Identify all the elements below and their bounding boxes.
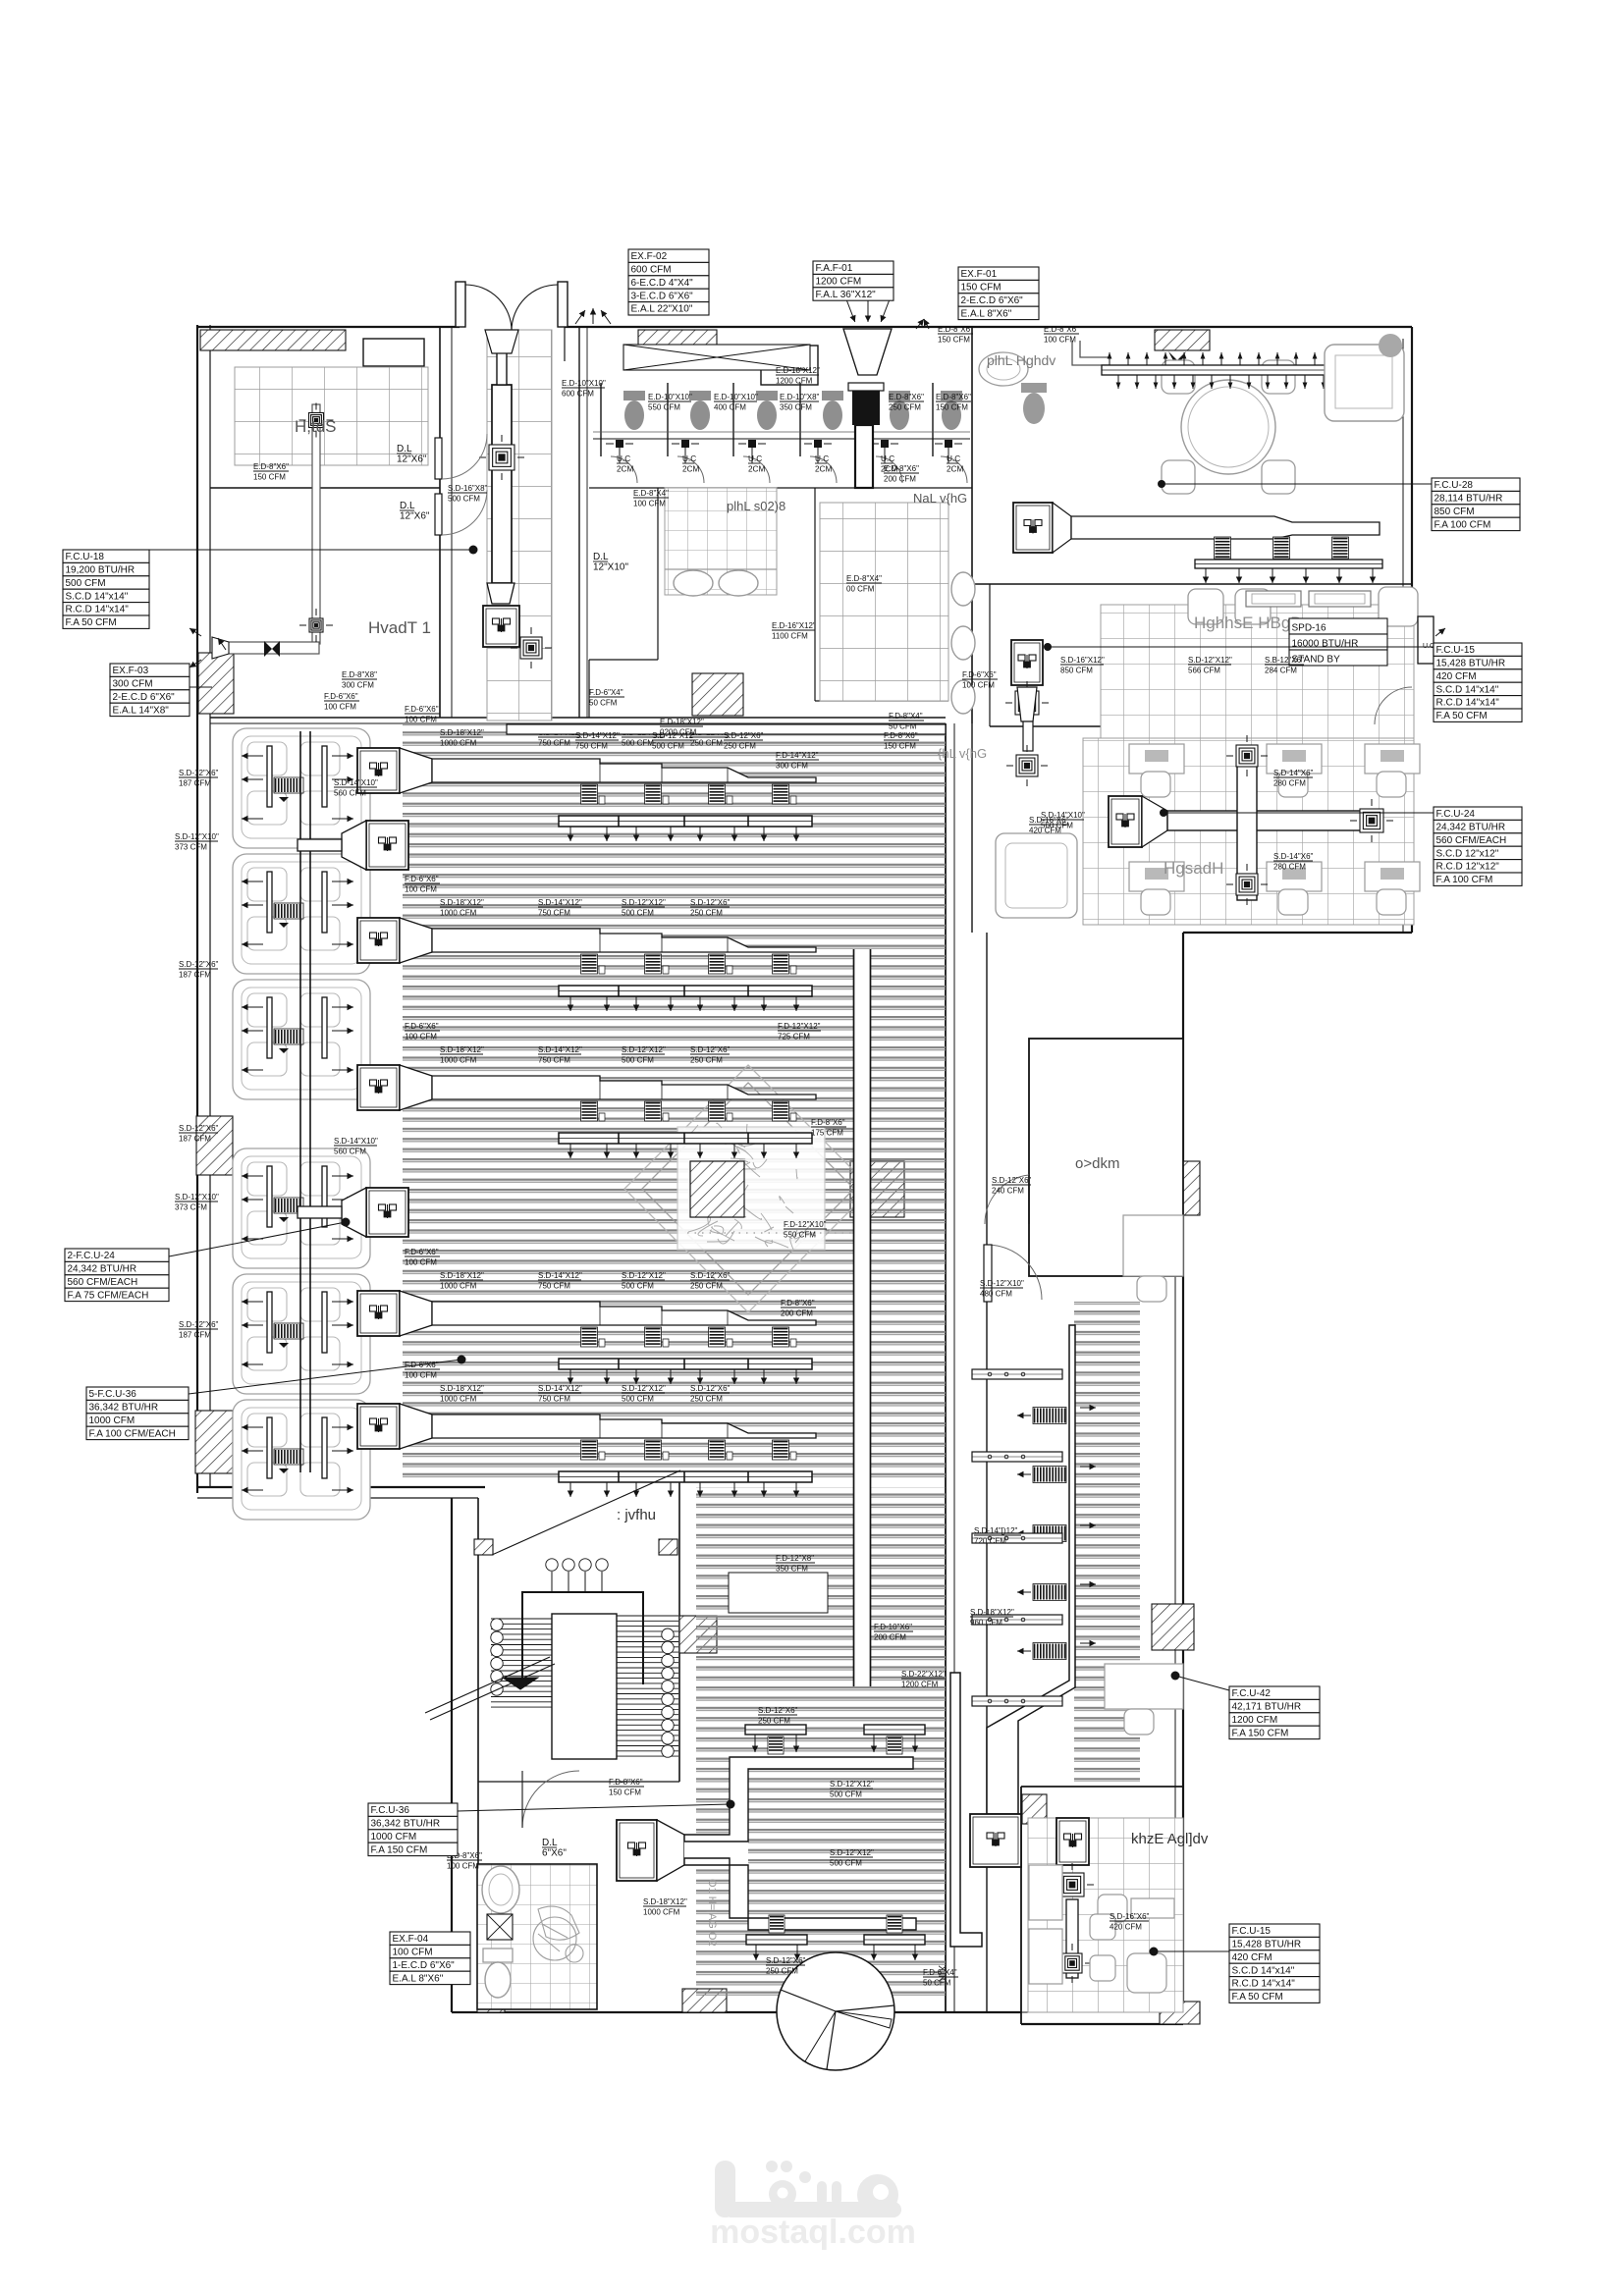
accessible WC symbol <box>533 1906 583 1962</box>
svg-text:2-E.C.D 6"X6": 2-E.C.D 6"X6" <box>113 692 176 703</box>
ablution cluster 4 <box>233 1148 370 1268</box>
valve top right <box>1168 351 1186 368</box>
svg-text:plhL s02)8: plhL s02)8 <box>727 499 785 513</box>
svg-text:850 CFM: 850 CFM <box>1060 667 1093 675</box>
svg-text:36,342 BTU/HR: 36,342 BTU/HR <box>89 1403 159 1414</box>
svg-text:6-E.C.D 4"X4": 6-E.C.D 4"X4" <box>631 278 694 289</box>
svg-text:SPD-16: SPD-16 <box>1292 623 1326 634</box>
2-F.C.U-24 label box <box>65 1249 169 1302</box>
svg-text:S.C.D 14"x14": S.C.D 14"x14" <box>1232 1965 1295 1976</box>
svg-text:2CM: 2CM <box>682 465 699 474</box>
vanity basin <box>979 352 1028 386</box>
svg-text:S.D-22"X12": S.D-22"X12" <box>901 1670 946 1679</box>
decorative diamond medallion <box>624 1065 872 1312</box>
svg-text:200 CFM: 200 CFM <box>874 1633 906 1642</box>
svg-text:2CM: 2CM <box>815 465 832 474</box>
svg-text:S.D-12"X10": S.D-12"X10" <box>980 1279 1024 1288</box>
svg-text:S.C.D 14"x14": S.C.D 14"x14" <box>1436 684 1499 695</box>
svg-text:E.D-8"X4": E.D-8"X4" <box>846 574 882 583</box>
svg-text:S.D-12"X6": S.D-12"X6" <box>690 1384 731 1393</box>
EX.F-03 label box <box>110 664 189 717</box>
svg-text:EX.F-04: EX.F-04 <box>393 1934 429 1945</box>
svg-text:0200 CFM: 0200 CFM <box>660 728 697 737</box>
lower hall lower diffuser 2 <box>864 1915 925 1960</box>
U.C 2CM label 1 <box>617 454 633 474</box>
label S.D-18x12 row 1 <box>440 728 484 748</box>
svg-text:480 CFM: 480 CFM <box>980 1290 1012 1299</box>
label S.D-12x12 row 4 <box>622 1271 666 1291</box>
svg-text:U.C: U.C <box>947 454 960 463</box>
label E.D-10x10 corr <box>562 379 606 399</box>
svg-text:2CM: 2CM <box>748 465 765 474</box>
dining round table <box>1162 360 1295 494</box>
svg-text:15,428 BTU/HR: 15,428 BTU/HR <box>1232 1940 1302 1950</box>
svg-text:373 CFM: 373 CFM <box>175 1203 207 1212</box>
svg-text:S.D-16"X8": S.D-16"X8" <box>448 484 488 493</box>
svg-text:350 CFM: 350 CFM <box>780 403 812 412</box>
svg-text:36,342 BTU/HR: 36,342 BTU/HR <box>371 1819 441 1830</box>
F.C.U-15 mid trunk <box>1005 640 1049 786</box>
svg-text:100 CFM: 100 CFM <box>324 703 356 712</box>
kitchen door arc <box>1375 687 1412 724</box>
svg-text:500 CFM: 500 CFM <box>448 495 480 504</box>
svg-text:mostaql.com: mostaql.com <box>710 2214 916 2251</box>
svg-text:500 CFM: 500 CFM <box>622 909 654 918</box>
svg-text:S.D-14"X6": S.D-14"X6" <box>1273 769 1314 777</box>
svg-text:280 CFM: 280 CFM <box>1273 863 1306 872</box>
H.tdS exhaust duct run <box>212 403 334 660</box>
lower hall upper diffuser 2 <box>864 1725 925 1754</box>
svg-text:750 CFM: 750 CFM <box>538 909 570 918</box>
svg-text:175 CFM: 175 CFM <box>811 1129 843 1138</box>
svg-text:H,tdS: H,tdS <box>295 417 337 436</box>
svg-text:560 CFM/EACH: 560 CFM/EACH <box>68 1277 138 1288</box>
svg-text:F.D-6"X6": F.D-6"X6" <box>405 1248 439 1256</box>
svg-text:1100 CFM: 1100 CFM <box>772 632 808 641</box>
F.C.U-36 label box <box>368 1803 458 1856</box>
svg-text:2-F.C.U-24: 2-F.C.U-24 <box>68 1251 116 1261</box>
svg-text:F.A 100 CFM: F.A 100 CFM <box>1435 519 1491 530</box>
svg-text:F.D-6"X6": F.D-6"X6" <box>405 705 439 714</box>
svg-text:U.C: U.C <box>815 454 829 463</box>
label S.D-14x12 row 3 <box>538 1045 582 1065</box>
svg-text:1200 CFM: 1200 CFM <box>1232 1715 1278 1726</box>
svg-text:750 CFM: 750 CFM <box>538 1282 570 1291</box>
label E.D-8x6 150b <box>936 393 971 412</box>
right wing linear diffuser 4 <box>972 1615 1062 1625</box>
stair diagonal void line <box>492 1470 680 1555</box>
svg-text:E.D-8"X8": E.D-8"X8" <box>342 670 377 679</box>
hall supply duct row 2 <box>357 918 816 1011</box>
svg-text:S.D-14"X12": S.D-14"X12" <box>538 1384 582 1393</box>
label S.D-12x12 500 b <box>830 1848 874 1868</box>
svg-text:100 CFM: 100 CFM <box>405 885 437 894</box>
svg-text:150 CFM: 150 CFM <box>938 336 970 345</box>
hall supply duct row 3 <box>357 1065 816 1158</box>
right wing trunk duct + F.C.U-42 unit <box>970 1325 1075 1867</box>
svg-text:420 CFM: 420 CFM <box>1029 827 1061 835</box>
medallion hatch square L <box>690 1161 744 1217</box>
ablution cluster 5 <box>233 1274 370 1394</box>
svg-text:1000 CFM: 1000 CFM <box>440 1056 477 1065</box>
kitchen sinks <box>1246 591 1301 607</box>
svg-text:420 CFM: 420 CFM <box>1436 671 1477 682</box>
5-F.C.U-36 leader <box>189 1360 461 1394</box>
label S.D-12x12 top <box>652 731 696 751</box>
svg-text:2CM: 2CM <box>947 465 963 474</box>
svg-text:S.D-18"X12": S.D-18"X12" <box>440 728 484 737</box>
svg-text:1000 CFM: 1000 CFM <box>643 1908 680 1917</box>
label S.D-22x12 1200 <box>901 1670 946 1689</box>
F.C.U-42 label box <box>1229 1686 1320 1739</box>
label S.D-14x6 office b <box>1273 852 1314 872</box>
label E.D-8x6 100 top <box>1044 325 1079 345</box>
svg-text:100 CFM: 100 CFM <box>405 716 437 724</box>
svg-text:F.D-8"X6": F.D-8"X6" <box>811 1118 845 1127</box>
svg-text:550 CFM: 550 CFM <box>648 403 680 412</box>
right wing coil diffuser 4 <box>1017 1581 1096 1601</box>
svg-text:F.D-14"X12": F.D-14"X12" <box>776 751 819 760</box>
room H,tdS tile floor <box>235 367 428 465</box>
svg-text:600 CFM: 600 CFM <box>562 390 594 399</box>
svg-text:15,428 BTU/HR: 15,428 BTU/HR <box>1436 659 1506 669</box>
label F.D-6x6 row 4 <box>405 1248 440 1267</box>
svg-text:250 CFM: 250 CFM <box>889 403 921 412</box>
svg-text:S.D-12"X6": S.D-12"X6" <box>690 1271 731 1280</box>
svg-text:100 CFM: 100 CFM <box>633 500 666 508</box>
svg-text:12"X10": 12"X10" <box>593 562 628 573</box>
svg-text:187 CFM: 187 CFM <box>179 971 211 980</box>
label S.D-12x12 566 <box>1188 656 1232 675</box>
ablution cluster 2 <box>233 854 370 974</box>
svg-text:F.D-12"X12": F.D-12"X12" <box>778 1022 821 1031</box>
svg-text:HvadT 1: HvadT 1 <box>368 618 431 637</box>
svg-text:300 CFM: 300 CFM <box>113 679 153 690</box>
label S.D-14x12 row 5 <box>538 1384 582 1404</box>
svg-text:100 CFM: 100 CFM <box>405 1033 437 1041</box>
dining slot diffuser with arrows <box>1102 352 1386 389</box>
label S.D-12x12 row 5 <box>622 1384 666 1404</box>
svg-text:F.D-6"X6": F.D-6"X6" <box>962 670 997 679</box>
U.C 2CM label 5 <box>881 454 897 474</box>
lower hall loop duct + F.C.U-36 <box>617 1757 916 1930</box>
svg-text:F.C.U-24: F.C.U-24 <box>1436 809 1476 820</box>
svg-text:S.D-16"X6": S.D-16"X6" <box>1029 816 1069 825</box>
svg-text:E.D-8"X6": E.D-8"X6" <box>1044 325 1079 334</box>
label F.D-10x6 200 <box>874 1623 913 1642</box>
svg-text:F.D-8"X6": F.D-8"X6" <box>884 731 918 740</box>
o>dkm door <box>985 1175 1029 1224</box>
label E.D-18x12 top <box>776 366 820 386</box>
svg-text:F.C.U-15: F.C.U-15 <box>1232 1926 1272 1937</box>
svg-text:S.D-14"X12": S.D-14"X12" <box>538 1271 582 1280</box>
svg-text:725 CFM: 725 CFM <box>778 1033 810 1041</box>
svg-text:HghhsE HBgD: HghhsE HBgD <box>1194 614 1303 632</box>
svg-text:S.D-14"X10": S.D-14"X10" <box>334 778 378 787</box>
label S.D-12x6 row 2 <box>690 898 731 918</box>
right wing linear diffuser 3 <box>972 1533 1062 1543</box>
label S.D-12x6 row 4 <box>690 1271 731 1291</box>
U.C 2CM label 3 <box>748 454 765 474</box>
svg-text:S.D-12"X12": S.D-12"X12" <box>622 898 666 907</box>
label E.D-8x6 200 <box>884 464 919 484</box>
svg-text:19,200 BTU/HR: 19,200 BTU/HR <box>66 565 135 576</box>
svg-text:500 CFM: 500 CFM <box>66 578 106 589</box>
svg-text:U.C: U.C <box>748 454 762 463</box>
svg-text:S.D-12"X6": S.D-12"X6" <box>690 1045 731 1054</box>
svg-text:S.D-12"X10": S.D-12"X10" <box>175 1193 219 1201</box>
svg-text:D.L: D.L <box>397 444 412 454</box>
svg-text:S.D-12"X6": S.D-12"X6" <box>690 898 731 907</box>
svg-text:F.C.U-42: F.C.U-42 <box>1232 1688 1272 1699</box>
svg-text:E.D-8"X6": E.D-8"X6" <box>889 393 924 401</box>
wall penetration arrows L <box>189 628 201 636</box>
label S.D-14x10 560 a <box>334 778 378 798</box>
svg-text:U.C: U.C <box>617 454 630 463</box>
svg-text:750 CFM: 750 CFM <box>538 1395 570 1404</box>
svg-text:1200 CFM: 1200 CFM <box>776 377 813 386</box>
svg-text:S.D-12"X12": S.D-12"X12" <box>622 1271 666 1280</box>
svg-text:S.D-12"X6": S.D-12"X6" <box>758 1706 798 1715</box>
svg-text:S.D-12"X6": S.D-12"X6" <box>992 1176 1032 1185</box>
svg-text:F.A 150 CFM: F.A 150 CFM <box>371 1844 428 1855</box>
label S.D-12x6 row 5 <box>690 1384 731 1404</box>
svg-text:S.C.D 14"x14": S.C.D 14"x14" <box>66 591 129 602</box>
entrance corridor supply trunk <box>479 330 552 668</box>
svg-text:D.L: D.L <box>542 1838 558 1848</box>
svg-text:560 CFM/EACH: 560 CFM/EACH <box>1436 835 1507 846</box>
label S.D-12x10 373 2 <box>175 1193 219 1212</box>
svg-text:S.D-16"X12": S.D-16"X12" <box>1060 656 1105 665</box>
F.C.U-42 desk <box>1105 1664 1183 1709</box>
svg-text:500 CFM: 500 CFM <box>622 739 654 748</box>
svg-text:250 CFM: 250 CFM <box>766 1967 798 1976</box>
room o>dkm <box>1029 1039 1183 1276</box>
svg-text:E.A.L 22"X10": E.A.L 22"X10" <box>631 304 693 315</box>
svg-text:S.D-14"X12": S.D-14"X12" <box>538 1045 582 1054</box>
svg-text:F.C.U-36: F.C.U-36 <box>371 1805 410 1816</box>
svg-text:S.D-14"X6": S.D-14"X6" <box>1273 852 1314 861</box>
label S.D-12x6 240 <box>992 1176 1032 1196</box>
svg-text:E.A.L 14"X8": E.A.L 14"X8" <box>113 705 170 716</box>
svg-text:S.D-14"[)12": S.D-14"[)12" <box>974 1526 1018 1535</box>
khz chairs <box>1090 1955 1115 1981</box>
svg-text:250 CFM: 250 CFM <box>724 742 756 751</box>
svg-text:F.C.U-15: F.C.U-15 <box>1436 645 1476 656</box>
label F.D-8x6 topr <box>884 731 919 751</box>
svg-text:S.D-12"X12": S.D-12"X12" <box>622 1045 666 1054</box>
top niche 2 <box>761 346 818 385</box>
svg-text:280 CFM: 280 CFM <box>1273 779 1306 788</box>
svg-text:E.D-8"X6": E.D-8"X6" <box>936 393 971 401</box>
svg-text:100 CFM: 100 CFM <box>405 1258 437 1267</box>
svg-text:S.D-18"X12": S.D-18"X12" <box>440 1384 484 1393</box>
svg-text:150 CFM: 150 CFM <box>884 742 916 751</box>
label E.D-8x6 HtdS <box>253 462 289 482</box>
svg-text:E.D-10"X10": E.D-10"X10" <box>562 379 606 388</box>
label E.D-8x6 250 <box>889 393 924 412</box>
label S.D-16x6 khz <box>1110 1912 1150 1932</box>
label D.L 12x6 a <box>397 444 427 465</box>
svg-text:250 CFM: 250 CFM <box>690 1282 723 1291</box>
EX.F-04 label box <box>390 1932 470 1985</box>
right wing coil diffuser 3 <box>1017 1522 1096 1542</box>
svg-text:S.D-12"X6": S.D-12"X6" <box>179 1320 219 1329</box>
svg-text:100 CFM: 100 CFM <box>962 681 995 690</box>
label S.D-16x6 420 <box>1029 816 1069 835</box>
label S.D-14x12 row 2 <box>538 898 582 918</box>
office sofa <box>996 833 1077 918</box>
svg-text:F.A 150 CFM: F.A 150 CFM <box>1232 1728 1289 1738</box>
label S.D-16x12 850 <box>1060 656 1105 675</box>
label D.L 12x10 <box>593 552 628 573</box>
svg-text:S.D-12"X12": S.D-12"X12" <box>1188 656 1232 665</box>
svg-text:500 CFM: 500 CFM <box>652 742 684 751</box>
label S.D-12x6 284 <box>1265 656 1304 675</box>
svg-text:420 CFM: 420 CFM <box>1110 1923 1142 1932</box>
hall supply duct row 4 <box>357 1291 816 1384</box>
label F.D-6x6 row 1 <box>405 705 440 724</box>
svg-text:5-F.C.U-36: 5-F.C.U-36 <box>89 1389 137 1400</box>
svg-text:F.D-8"X6": F.D-8"X6" <box>781 1299 815 1308</box>
F.C.U-15 leader <box>1048 646 1434 648</box>
label E.D-16x12 <box>772 621 816 641</box>
ablution cluster 6 <box>233 1400 370 1520</box>
khz desks <box>1029 1865 1062 1920</box>
svg-text:200 CFM: 200 CFM <box>781 1309 813 1318</box>
svg-text:373 CFM: 373 CFM <box>175 843 207 852</box>
svg-text:600 CFM: 600 CFM <box>631 265 672 276</box>
cluster F.C.U 2 <box>298 1188 408 1237</box>
svg-text:F.A.L 36"X12": F.A.L 36"X12" <box>816 290 877 300</box>
svg-text:S.D-18"X12": S.D-18"X12" <box>440 898 484 907</box>
svg-text:420 CFM: 420 CFM <box>1232 1952 1272 1963</box>
EX.F-02 label box <box>628 249 709 315</box>
label S.D-14x12 row 4 <box>538 1271 582 1291</box>
svg-text:150 CFM: 150 CFM <box>961 283 1001 294</box>
svg-text:{hL v{hG: {hL v{hG <box>938 746 987 761</box>
label S.D-18x12 row 5 <box>440 1384 484 1404</box>
svg-text:F.D-6"X6": F.D-6"X6" <box>405 1022 439 1031</box>
dining sofa <box>1325 345 1404 421</box>
svg-text:1200 CFM: 1200 CFM <box>901 1681 939 1689</box>
F.C.U-28 label box <box>1432 478 1520 531</box>
D.L slot b <box>435 494 442 535</box>
F.C.U-24 leader <box>1164 812 1434 814</box>
F.C.U-18 label box <box>63 550 149 628</box>
label S.D-12x10 373 1 <box>175 832 219 852</box>
svg-text:F.A 50 CFM: F.A 50 CFM <box>66 617 117 628</box>
label S.D-16x8 corr <box>448 484 488 504</box>
svg-text:E.D-16"X12": E.D-16"X12" <box>772 621 816 630</box>
lower hall upper diffuser 1 <box>745 1725 806 1754</box>
svg-text:720 CFM: 720 CFM <box>974 1537 1006 1546</box>
svg-text:D.L: D.L <box>400 501 415 511</box>
svg-text:550 CFM: 550 CFM <box>784 1231 816 1240</box>
svg-text:S.D-18"X12": S.D-18"X12" <box>440 1271 484 1280</box>
label F.D-6x4 corr <box>589 688 624 708</box>
svg-text:2-E.C.D 6"X6": 2-E.C.D 6"X6" <box>961 295 1024 306</box>
svg-text:F.A.F-01: F.A.F-01 <box>816 263 853 274</box>
svg-text:S.D-12"X6": S.D-12"X6" <box>179 769 219 777</box>
label S.D-12x12 500 a <box>830 1780 874 1799</box>
svg-text:R.C.D 12"x12": R.C.D 12"x12" <box>1436 862 1500 873</box>
label D.L 12x6 b <box>400 501 430 522</box>
svg-text:D.L: D.L <box>593 552 609 562</box>
F.C.U-28 leader <box>1162 483 1432 485</box>
svg-text:250 CFM: 250 CFM <box>690 1395 723 1404</box>
label S.D-12x12 row 1 <box>622 728 666 748</box>
svg-text:500 CFM: 500 CFM <box>622 1056 654 1065</box>
cluster F.C.U 1 <box>298 821 408 870</box>
label E.D-8x4 bath1 <box>633 489 669 508</box>
svg-text:300 CFM: 300 CFM <box>342 681 374 690</box>
svg-text:S.D-14"X12": S.D-14"X12" <box>575 731 620 740</box>
lower bath outline <box>477 1864 597 2009</box>
svg-text:S.D-14"X10": S.D-14"X10" <box>334 1137 378 1146</box>
svg-text:1000 CFM: 1000 CFM <box>440 1395 477 1404</box>
lower bath door <box>522 1771 579 1828</box>
svg-text:187 CFM: 187 CFM <box>179 1331 211 1340</box>
svg-text:F.D-10"X6": F.D-10"X6" <box>874 1623 912 1631</box>
right wing linear diffuser 2 <box>972 1452 1062 1462</box>
khz tile floor <box>1028 1818 1183 2012</box>
svg-text:S.D-12"X6": S.D-12"X6" <box>724 731 764 740</box>
svg-text:F.A 50 CFM: F.A 50 CFM <box>1232 1992 1283 2002</box>
label F.D-6x6 100 <box>962 670 998 690</box>
label F.D-6x6 row 5 <box>405 1361 440 1380</box>
label S.D-18x12 row 2 <box>440 898 484 918</box>
bath2 WC ovals <box>951 572 975 714</box>
svg-text:S.D-12"X6": S.D-12"X6" <box>179 960 219 969</box>
plant corner <box>1379 334 1402 357</box>
lower hall floor opening <box>729 1573 828 1613</box>
svg-text:EX.F-01: EX.F-01 <box>961 269 998 280</box>
label F.D-14x12 top <box>776 751 819 771</box>
svg-text:F.C.U-18: F.C.U-18 <box>66 552 105 562</box>
F.C.U-42 leader <box>1175 1676 1229 1690</box>
svg-text:100 CFM: 100 CFM <box>405 1371 437 1380</box>
svg-text:42,171 BTU/HR: 42,171 BTU/HR <box>1232 1702 1302 1713</box>
svg-text:EX.F-03: EX.F-03 <box>113 666 149 676</box>
F.C.U-18 leader <box>148 549 473 551</box>
svg-text:300 CFM: 300 CFM <box>776 762 808 771</box>
label S.D-18x12 1000 lo <box>643 1897 687 1917</box>
svg-text:: jvfhu: : jvfhu <box>617 1507 656 1523</box>
corridor tile floor <box>487 330 552 721</box>
svg-text:S.D-12"X12": S.D-12"X12" <box>622 1384 666 1393</box>
svg-text:240 CFM: 240 CFM <box>992 1187 1024 1196</box>
label S.D-14x12 row 1 <box>538 728 582 748</box>
svg-text:E.A.L 8"X6": E.A.L 8"X6" <box>393 1973 444 1984</box>
label F.D-8x4 topr <box>889 712 924 731</box>
svg-text:250 CFM: 250 CFM <box>690 1056 723 1065</box>
svg-text:E.D-10"X8": E.D-10"X8" <box>780 393 820 401</box>
label S.D-18x12 row 4 <box>440 1271 484 1291</box>
svg-text:500 CFM: 500 CFM <box>830 1859 862 1868</box>
ablution cluster 3 <box>233 980 370 1099</box>
top-left niche <box>363 339 424 366</box>
khz F.C.U-15 trunk <box>1051 1818 1094 1983</box>
label S.D-12x12 row 2 <box>622 898 666 918</box>
label E.D-8x6 150 top <box>938 325 973 345</box>
svg-text:750 CFM: 750 CFM <box>575 742 608 751</box>
svg-text:F.D-6"X4": F.D-6"X4" <box>589 688 623 697</box>
svg-text:HgsadH: HgsadH <box>1164 859 1223 878</box>
label S.D-12x6 187 3 <box>179 1124 219 1144</box>
svg-text:500 CFM: 500 CFM <box>830 1790 862 1799</box>
svg-text:E.D-18"X12": E.D-18"X12" <box>776 366 820 375</box>
